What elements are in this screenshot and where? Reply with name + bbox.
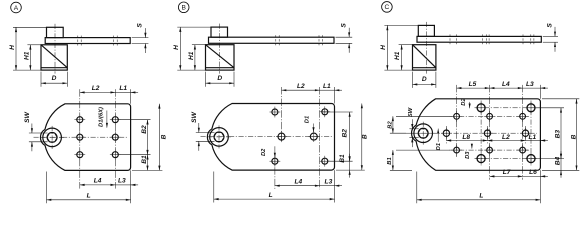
svg-text:L3: L3: [526, 81, 534, 88]
svg-text:B: B: [570, 134, 577, 139]
hex boss B: [210, 128, 229, 147]
side view B clamp arm: [209, 37, 335, 43]
dimension S (B): [336, 36, 353, 38]
holes C rows A and E (D2/D3): [477, 104, 485, 112]
dimension D (C): [412, 72, 414, 88]
svg-text:L3: L3: [118, 178, 126, 185]
dimension L6 (C): [523, 175, 541, 177]
svg-text:L2: L2: [297, 83, 305, 90]
svg-text:SW: SW: [408, 107, 414, 117]
dimension L7 (C): [490, 175, 523, 177]
centre line B: [201, 136, 333, 138]
dimension L2 (B): [282, 89, 320, 91]
dimension B2/B1/B (B): [323, 111, 353, 113]
side view C hidden hole lines: [449, 34, 451, 44]
column line mid-left B: [281, 87, 283, 143]
dimension L4 (B): [275, 185, 320, 187]
hex boss C: [414, 124, 433, 143]
dimension L1 (A): [130, 89, 132, 104]
side view B hidden hole lines: [275, 35, 277, 45]
corner holes B (D2): [272, 109, 278, 115]
dimension SW (B): [196, 132, 215, 134]
dimension B2 left (C): [396, 115, 452, 117]
dimension L2 (A): [80, 91, 116, 93]
svg-text:D: D: [52, 75, 57, 82]
variant label C: [382, 2, 393, 13]
svg-text:H1: H1: [23, 51, 30, 60]
hex boss A: [43, 128, 62, 147]
holes C centre row (D1): [443, 130, 449, 136]
svg-text:B4: B4: [555, 156, 562, 165]
centre line A: [34, 136, 129, 138]
dimension L8 (C): [446, 140, 487, 142]
svg-text:L4: L4: [94, 178, 102, 185]
svg-text:D1: D1: [436, 143, 442, 150]
top view C plate outline: [412, 99, 541, 171]
svg-text:C: C: [385, 4, 390, 11]
dimension L (B): [213, 172, 215, 203]
svg-text:D1: D1: [304, 116, 310, 123]
svg-text:D3: D3: [465, 151, 471, 159]
dimension L3 (B): [320, 185, 335, 187]
svg-text:A: A: [14, 5, 19, 12]
svg-text:L4: L4: [294, 178, 302, 185]
side view A boss: [47, 27, 64, 37]
side view B support block: [206, 45, 235, 70]
svg-text:D: D: [217, 75, 222, 82]
dimension SW (C): [409, 128, 418, 130]
dimension H (A): [13, 26, 47, 28]
svg-text:L: L: [269, 192, 273, 199]
side view A support block: [41, 45, 67, 70]
side view C clamp arm: [417, 36, 541, 42]
dimension L4 top (C): [490, 87, 523, 89]
column line bottom-left B: [274, 156, 276, 190]
holes A (6x D1): [77, 117, 83, 123]
dimension D (A): [40, 72, 42, 87]
svg-text:B1: B1: [387, 157, 393, 164]
svg-text:B1: B1: [339, 154, 346, 163]
svg-text:L: L: [87, 193, 91, 200]
dimension L3 (A): [115, 184, 130, 186]
variant label B: [178, 2, 189, 13]
dimension H1 (C): [399, 44, 413, 46]
dimension S (C): [543, 35, 558, 37]
svg-text:L2: L2: [502, 134, 510, 141]
side view C centre line: [425, 22, 427, 74]
side view C boss: [418, 25, 434, 36]
svg-text:H1: H1: [394, 51, 401, 60]
column lines C: [480, 101, 482, 166]
top view B plate outline: [207, 104, 334, 171]
svg-text:B2: B2: [387, 121, 393, 129]
svg-text:H: H: [173, 45, 180, 50]
side view A clamp arm: [45, 38, 130, 44]
side view A centre line: [54, 24, 56, 74]
svg-text:L3: L3: [325, 178, 333, 185]
dimension D (B): [205, 72, 207, 87]
svg-text:D2: D2: [461, 98, 467, 106]
side view B centre line: [219, 24, 221, 74]
svg-text:D1/(6X): D1/(6X): [98, 107, 104, 127]
svg-text:L: L: [479, 193, 483, 200]
hole column lines A: [79, 89, 81, 188]
svg-text:L4: L4: [502, 81, 510, 88]
svg-text:L7: L7: [503, 169, 511, 176]
svg-text:B3: B3: [554, 130, 561, 139]
centre line C: [406, 132, 537, 134]
dimension L (C): [416, 172, 418, 204]
dimension H (B): [177, 26, 211, 28]
svg-text:S: S: [547, 23, 554, 28]
svg-text:B1: B1: [141, 155, 148, 164]
svg-text:H1: H1: [188, 51, 195, 60]
side view C support block: [413, 45, 436, 70]
reference column line B: [319, 87, 321, 189]
dimension B1 left (C): [396, 149, 450, 151]
row lines C: [475, 107, 537, 109]
top view A plate outline: [40, 104, 130, 171]
dimension L2 mid (C): [488, 140, 526, 142]
dimension H1 (B): [192, 44, 206, 46]
svg-text:B: B: [181, 5, 186, 12]
svg-text:SW: SW: [191, 111, 198, 122]
svg-text:L6: L6: [529, 169, 537, 176]
svg-text:B2: B2: [342, 129, 349, 138]
svg-text:H: H: [9, 45, 16, 50]
variant label A: [11, 2, 22, 13]
svg-text:B: B: [361, 134, 368, 139]
svg-text:L1: L1: [323, 83, 331, 90]
side view B boss: [211, 27, 228, 37]
svg-text:B2: B2: [141, 125, 148, 134]
svg-text:H: H: [380, 45, 387, 50]
svg-text:L5: L5: [469, 81, 477, 88]
svg-text:L1: L1: [119, 85, 127, 92]
svg-text:B: B: [161, 134, 168, 139]
svg-text:L1: L1: [528, 134, 536, 141]
dimension SW (A): [29, 132, 48, 134]
dimension L1 mid (C): [526, 140, 541, 142]
svg-text:S: S: [340, 23, 347, 28]
dimension H (C): [384, 24, 418, 26]
dimension B2 (A): [119, 119, 151, 121]
svg-text:D: D: [422, 76, 427, 83]
svg-text:L2: L2: [92, 85, 100, 92]
dimension L1 (B): [334, 87, 336, 104]
dimension L5 (C): [457, 87, 490, 89]
holes C rows B and D: [454, 113, 460, 119]
dimension B3/B4/B (C): [535, 107, 564, 109]
svg-text:L8: L8: [462, 134, 470, 141]
dimension L (A): [46, 172, 48, 204]
dimension H1 (A): [27, 44, 41, 46]
middle holes B (D1): [278, 133, 285, 140]
dimension S (A): [132, 37, 149, 39]
svg-text:D2: D2: [261, 148, 267, 156]
svg-text:SW: SW: [24, 111, 31, 122]
svg-text:S: S: [137, 23, 144, 28]
side view A hidden hole lines: [77, 36, 79, 46]
dimension L4 (A): [80, 184, 116, 186]
dimension L3 (C): [539, 85, 541, 99]
